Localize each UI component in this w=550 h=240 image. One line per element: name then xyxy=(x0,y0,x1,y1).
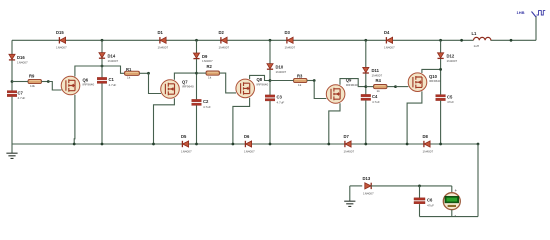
resistor R2 xyxy=(206,64,220,79)
node bottom rail x=328.8 xyxy=(327,143,330,146)
svg-text:1N4007: 1N4007 xyxy=(285,45,296,49)
node stage4 drain junction xyxy=(364,85,367,88)
svg-text:D6: D6 xyxy=(244,134,250,139)
svg-text:1k: 1k xyxy=(208,76,212,80)
diode D9 xyxy=(193,53,213,63)
capacitor C7 xyxy=(7,90,25,100)
svg-text:1N4007: 1N4007 xyxy=(423,149,434,153)
wire stage1 tap lower xyxy=(101,83,103,144)
wire stage5 tap upper xyxy=(440,40,442,53)
wire Q9 drain line xyxy=(340,79,366,87)
node bottom rail x=270 xyxy=(269,143,272,146)
diode D8 xyxy=(423,134,434,153)
wire stage1 tap mid xyxy=(101,59,103,78)
svg-text:D11: D11 xyxy=(372,68,380,73)
svg-text:Q8: Q8 xyxy=(257,77,263,82)
wire stage4 tap lower xyxy=(365,100,367,144)
wire R4 right lead xyxy=(387,86,396,88)
node stage5 drain junction xyxy=(439,68,442,71)
node gate feed Q6 xyxy=(47,80,50,83)
svg-text:1k: 1k xyxy=(298,83,302,87)
node R9 tee xyxy=(11,80,14,83)
node gate feed Q7 xyxy=(147,72,150,75)
svg-text:Q7: Q7 xyxy=(182,79,188,84)
wire R4 left lead xyxy=(366,86,374,88)
diode D13 xyxy=(363,176,374,196)
svg-text:IRF9640: IRF9640 xyxy=(346,83,358,87)
wire Q10 drain line xyxy=(422,69,441,73)
wire stage2 tap lower xyxy=(196,105,198,144)
diode D2 xyxy=(219,30,230,49)
wire stage1 tap upper xyxy=(101,40,103,52)
svg-text:1N4007: 1N4007 xyxy=(158,45,169,49)
diode D6 xyxy=(244,134,255,153)
svg-text:D16: D16 xyxy=(17,55,25,60)
resistor R3 xyxy=(294,74,308,87)
svg-text:D5: D5 xyxy=(181,134,187,139)
svg-text:C6: C6 xyxy=(427,198,433,203)
diode D14 xyxy=(99,53,119,63)
svg-text:IRF9640: IRF9640 xyxy=(182,85,194,89)
svg-text:D12: D12 xyxy=(447,54,455,59)
svg-text:D8: D8 xyxy=(423,134,429,139)
wire Q8 source drop xyxy=(233,98,250,144)
svg-text:R1: R1 xyxy=(126,67,132,72)
node bottom rail x=102 xyxy=(101,143,104,146)
wire stage4 tap upper xyxy=(365,40,367,67)
diode D4 xyxy=(384,30,395,49)
wire battery top lead xyxy=(451,186,453,193)
svg-text:C7: C7 xyxy=(18,90,24,95)
wire Q10 source drop xyxy=(407,91,422,144)
svg-text:1N4007: 1N4007 xyxy=(447,59,458,63)
svg-text:4.7uF: 4.7uF xyxy=(372,100,380,104)
svg-text:1N4007: 1N4007 xyxy=(219,45,230,49)
wire R3 left lead xyxy=(270,80,294,82)
svg-text:1N4007: 1N4007 xyxy=(56,45,67,49)
svg-text:1uH: 1uH xyxy=(474,44,480,48)
node top rail x=440.6 xyxy=(439,39,442,42)
capacitor C5 xyxy=(436,94,454,104)
wire D13 left lead xyxy=(350,185,362,187)
transistor Q6 xyxy=(61,76,94,95)
wire R3 right lead xyxy=(307,80,314,82)
node bottom rail x=440.6 xyxy=(439,143,442,146)
transistor Q8 xyxy=(236,77,269,98)
svg-text:1N4007: 1N4007 xyxy=(384,45,395,49)
wire Q9 source drop xyxy=(329,103,340,144)
wire R2 left lead xyxy=(197,72,207,74)
diode D10 xyxy=(267,64,287,74)
svg-text:L1: L1 xyxy=(472,31,478,36)
svg-text:4.7uF: 4.7uF xyxy=(109,83,117,87)
wire left branch lower xyxy=(11,97,13,144)
svg-text:1N4007: 1N4007 xyxy=(276,70,287,74)
node bottom rail x=407.1 xyxy=(406,143,409,146)
svg-text:1HB: 1HB xyxy=(517,10,525,15)
diode D11 xyxy=(363,67,383,77)
svg-text:C5: C5 xyxy=(447,94,453,99)
wire battery bottom lead xyxy=(451,210,453,217)
capacitor C3 xyxy=(265,95,284,105)
wire stage2 tap upper xyxy=(196,40,198,53)
wire stage3 tap mid xyxy=(269,70,271,95)
svg-text:4.7uF: 4.7uF xyxy=(18,96,26,100)
wire Q8 drain line xyxy=(250,75,270,80)
resistor R1 xyxy=(125,67,140,79)
node gate feed Q10 xyxy=(394,85,397,88)
probe 1HB output xyxy=(517,10,546,17)
diode D7 xyxy=(344,134,355,153)
diode D1 xyxy=(158,30,169,49)
wire R9 right lead xyxy=(42,81,49,83)
svg-text:1N4007: 1N4007 xyxy=(181,149,192,153)
diode D5 xyxy=(181,134,192,153)
wire left branch upper xyxy=(11,40,13,54)
svg-text:D14: D14 xyxy=(108,53,116,58)
wire gate feed Q10 xyxy=(396,86,409,88)
svg-text:10k: 10k xyxy=(30,84,35,88)
node stage2 drain junction xyxy=(195,72,198,75)
wire gate feed Q6 xyxy=(48,82,61,91)
capacitor C4 xyxy=(361,94,380,104)
wire stage2 tap mid xyxy=(196,59,198,99)
wire stage3 tap upper xyxy=(269,40,271,63)
diode D15 xyxy=(56,30,67,49)
resistor R9 xyxy=(28,74,42,88)
svg-text:1N4007: 1N4007 xyxy=(344,149,355,153)
svg-text:Q10: Q10 xyxy=(429,74,438,79)
svg-text:C4: C4 xyxy=(372,94,378,99)
node bottom rail x=232.9 xyxy=(232,143,235,146)
wire Q6 source drop xyxy=(73,95,76,144)
svg-text:1k: 1k xyxy=(127,76,131,80)
wire stage4 tap mid xyxy=(365,73,367,94)
svg-text:1N4007: 1N4007 xyxy=(17,60,28,64)
svg-text:C1: C1 xyxy=(109,77,115,82)
svg-text:1N4007: 1N4007 xyxy=(372,74,383,78)
node bottom rail x=478 xyxy=(477,143,480,146)
diode D3 xyxy=(285,30,296,49)
svg-text:D3: D3 xyxy=(285,30,291,35)
svg-text:47uF: 47uF xyxy=(447,100,454,104)
capacitor C1 xyxy=(97,77,116,87)
node top rail x=196.5 xyxy=(195,39,198,42)
wire R9 left lead xyxy=(12,81,28,83)
node bottom rail x=196.5 xyxy=(195,143,198,146)
wire gate feed Q8 xyxy=(220,73,237,93)
wire stage5 tap mid xyxy=(440,59,442,95)
wire gate feed Q9 xyxy=(314,81,326,99)
node bottom rail x=74.2 xyxy=(73,143,76,146)
svg-text:D1: D1 xyxy=(158,30,164,35)
node bottom rail x=365.8 xyxy=(364,143,367,146)
wire right side down xyxy=(477,144,479,217)
svg-text:R3: R3 xyxy=(297,74,303,79)
wire left branch mid xyxy=(11,60,13,90)
svg-text:D7: D7 xyxy=(344,134,350,139)
svg-text:D4: D4 xyxy=(384,30,390,35)
wire stage5 tap lower xyxy=(440,101,442,144)
svg-text:R2: R2 xyxy=(207,64,213,69)
svg-text:IRF9640: IRF9640 xyxy=(257,83,269,87)
svg-text:4.7uF: 4.7uF xyxy=(277,101,285,105)
node C6 tee xyxy=(418,185,421,188)
wire probe stub xyxy=(535,16,537,40)
wire gate feed Q7 xyxy=(149,73,162,93)
svg-text:1N4007: 1N4007 xyxy=(244,149,255,153)
wire Q7 source drop xyxy=(154,98,175,144)
ground secondary xyxy=(344,186,355,207)
capacitor C6 xyxy=(414,198,434,208)
diode D12 xyxy=(438,53,458,63)
svg-text:IRF9640: IRF9640 xyxy=(429,79,441,83)
wire top rail right segment xyxy=(491,39,537,41)
node top rail x=102 xyxy=(101,39,104,42)
svg-text:4.7uF: 4.7uF xyxy=(203,105,211,109)
svg-text:D10: D10 xyxy=(276,64,284,69)
capacitor C2 xyxy=(192,99,211,109)
svg-text:C2: C2 xyxy=(203,99,209,104)
wire Q6 drain line xyxy=(75,66,125,77)
wire bottom loop xyxy=(420,216,479,218)
svg-text:D13: D13 xyxy=(363,176,371,181)
svg-text:1N4007: 1N4007 xyxy=(108,59,119,63)
wire C6 bottom lead xyxy=(419,204,421,217)
wire top rail left segment xyxy=(12,39,474,41)
svg-text:1N4007: 1N4007 xyxy=(363,192,374,196)
wire bottom rail xyxy=(12,143,478,145)
node top rail x=461.6 xyxy=(460,39,463,42)
svg-text:1k: 1k xyxy=(377,89,381,93)
svg-text:R9: R9 xyxy=(29,74,35,79)
wire D13 to battery top xyxy=(371,185,452,187)
battery B1 xyxy=(443,188,460,219)
resistor R4 xyxy=(374,78,388,93)
transistor Q9 xyxy=(326,78,357,104)
node stage1 drain junction xyxy=(101,65,104,68)
wire stage3 tap lower xyxy=(269,101,271,144)
diode D16 xyxy=(9,54,28,64)
wire R1 to Q7 gate node xyxy=(140,72,149,74)
svg-text:Q6: Q6 xyxy=(83,77,89,82)
node top rail x=365.8 xyxy=(364,39,367,42)
node bottom rail x=153.5 xyxy=(152,143,155,146)
svg-text:D9: D9 xyxy=(202,54,208,59)
svg-text:47uF: 47uF xyxy=(427,203,434,207)
svg-text:R4: R4 xyxy=(376,78,382,83)
svg-text:1N4007: 1N4007 xyxy=(202,59,213,63)
node gate feed Q9 xyxy=(313,79,316,82)
transistor Q10 xyxy=(408,73,441,92)
wire C6 top lead xyxy=(419,186,421,198)
ground main xyxy=(6,144,17,158)
svg-text:C3: C3 xyxy=(277,95,283,100)
svg-text:D2: D2 xyxy=(219,30,225,35)
svg-text:D15: D15 xyxy=(56,30,64,35)
node top rail x=270 xyxy=(269,39,272,42)
transistor Q7 xyxy=(161,79,194,98)
node top rail x=511 xyxy=(510,39,513,42)
svg-text:+: + xyxy=(455,188,458,193)
node stage3 drain junction xyxy=(269,79,272,82)
inductor L1 xyxy=(472,31,491,48)
svg-text:IRF9640: IRF9640 xyxy=(83,83,95,87)
wire Q7 drain line xyxy=(174,73,196,80)
